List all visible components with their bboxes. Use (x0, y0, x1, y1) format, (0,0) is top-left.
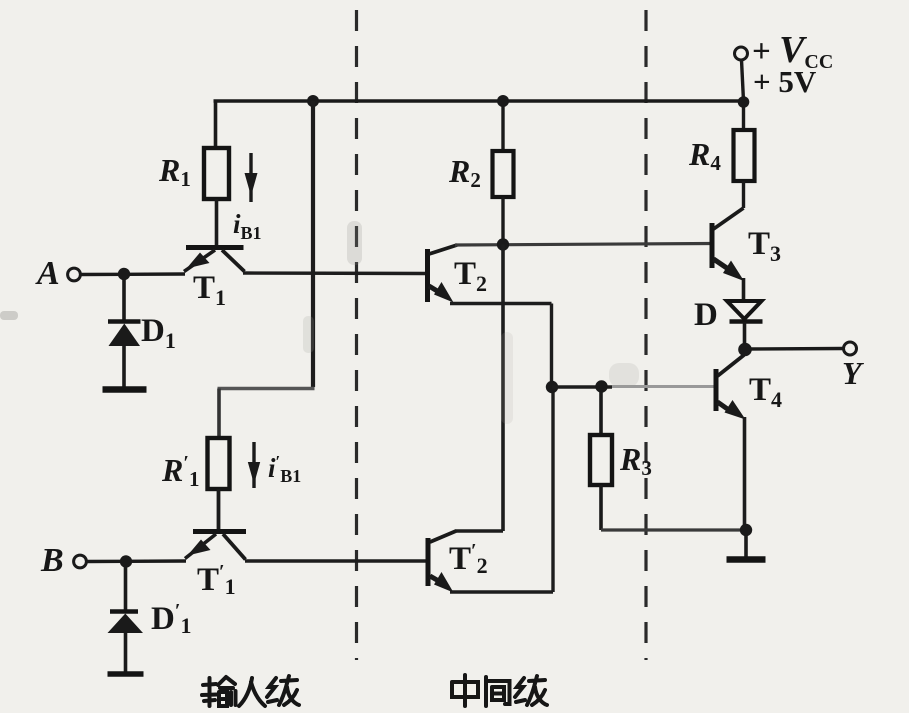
wire: T3 emitter to diode D (742, 278, 746, 302)
input terminal A (68, 268, 185, 281)
node junction phase-splitter emitters (546, 381, 558, 393)
svg-text:Y: Y (842, 355, 864, 391)
wire: T2 collector to T3 base (455, 244, 711, 246)
node junction R3 top (595, 380, 607, 392)
node junction at D1 (118, 268, 130, 280)
wire: T4 emitter down to ground node (743, 417, 747, 530)
node junction on rail above R2 (497, 95, 509, 107)
wire: T2' collector up to R2 node (455, 529, 503, 532)
terminal +Vcc (735, 47, 748, 101)
wire: T1' collector to T2' base (245, 559, 427, 562)
node junction on rail above R1' feed (307, 95, 319, 107)
wire: +Vcc top rail (214, 99, 745, 102)
wire: phase node to T4 base (552, 385, 714, 389)
diode D (727, 301, 763, 345)
transistor T1 (184, 248, 245, 272)
transistor T2' (428, 531, 456, 593)
wire: R2/T2-collector node down to T2' collector (501, 245, 505, 532)
resistor R1 (204, 101, 229, 246)
scan smudges (0, 221, 639, 424)
diode D1' (108, 561, 144, 673)
output terminal Y (844, 342, 857, 355)
wire: R3 bottom to T4 emitter/ground (601, 528, 746, 531)
caption: input stage (shu ru ji) (202, 676, 299, 706)
svg-text:B: B (40, 542, 64, 579)
caption: middle stage (zhong jian ji) (452, 675, 547, 706)
input terminal B (74, 555, 186, 568)
node junction output Y (738, 343, 752, 357)
svg-text:D: D (694, 297, 718, 333)
wire: rail feed down to R1' (vertical x=313, bend left, down) (218, 101, 315, 439)
transistor T3 (712, 208, 744, 281)
node junction R2 bottom on collector wire (497, 238, 509, 250)
node junction at D1' (120, 555, 132, 567)
transistor T2 (428, 245, 458, 303)
wire: T2' emitter right and up to phase node (450, 387, 553, 592)
ground below T4 (727, 530, 766, 560)
resistor R3 (590, 387, 612, 530)
ground below D1' (108, 671, 144, 677)
wire: T1 collector to T2 base (243, 271, 426, 275)
stage separator dashed line (middle/output) (644, 10, 647, 660)
resistor R1' (208, 438, 230, 530)
diode D1 (108, 274, 141, 389)
current arrow iB1 (245, 153, 258, 202)
transistor T4 (716, 355, 746, 420)
transistor T1' (185, 532, 246, 560)
svg-text:A: A (35, 255, 60, 292)
resistor R4 (734, 101, 755, 208)
node junction T4 emitter / R3 / ground (740, 524, 752, 536)
node junction on rail below Vcc terminal (738, 96, 750, 108)
wire: output node to terminal Y (745, 347, 843, 351)
current arrow i'B1 (248, 442, 260, 488)
ground below D1 (103, 386, 147, 392)
wire: T2 emitter right and down to phase node (450, 304, 552, 388)
stage separator dashed line (input/middle) (355, 10, 358, 660)
resistor R2 (493, 101, 514, 245)
svg-text:+ 5V: + 5V (753, 64, 817, 99)
